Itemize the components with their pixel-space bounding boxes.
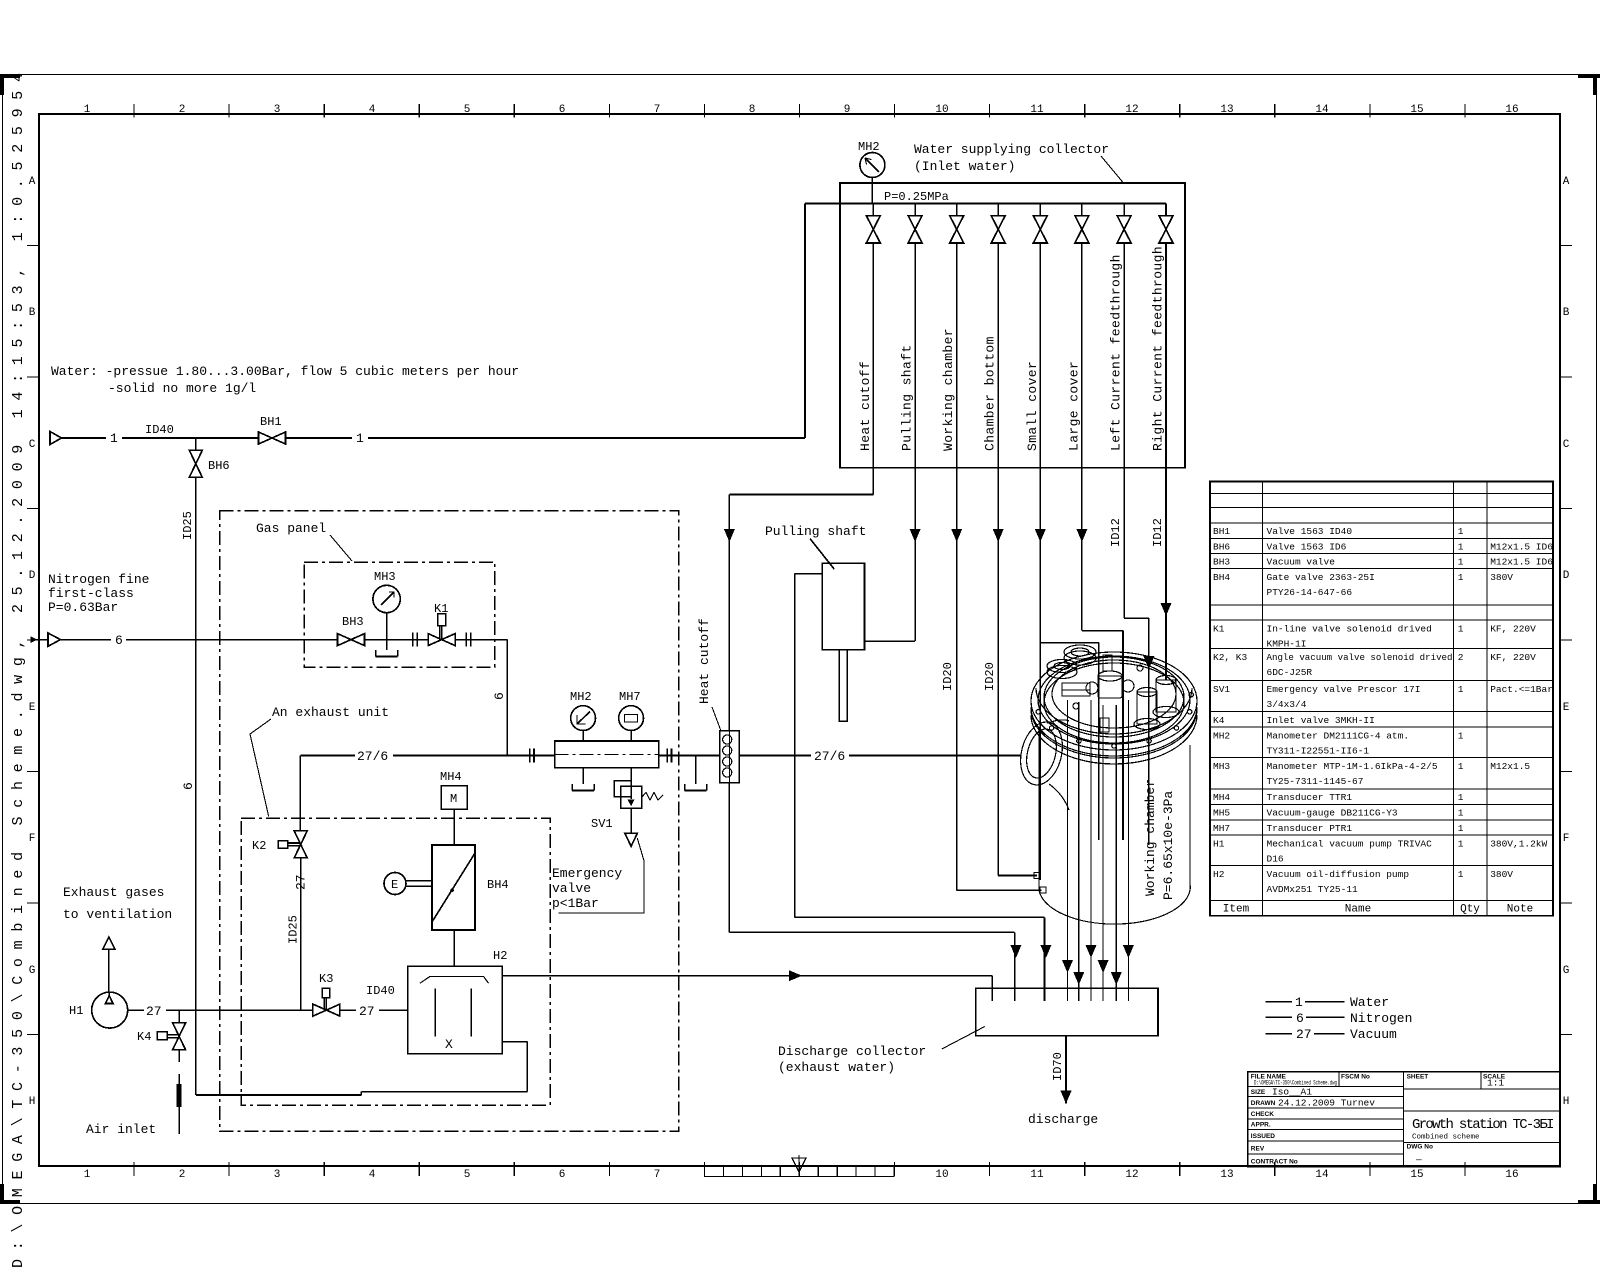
svg-text:SIZE: SIZE bbox=[1251, 1089, 1266, 1096]
svg-text:5: 5 bbox=[464, 1169, 471, 1181]
wire riser CB: down, right into chamber wall bbox=[997, 468, 999, 876]
svg-text:H: H bbox=[1563, 1096, 1570, 1108]
svg-text:BH3: BH3 bbox=[342, 615, 364, 629]
svg-text:DWG No: DWG No bbox=[1407, 1144, 1433, 1151]
top plate inner detail rects bbox=[1062, 683, 1090, 690]
wire nitrogen drop to 27/6 bbox=[506, 640, 508, 756]
legend water/nitrogen/vacuum bbox=[1266, 1002, 1345, 1034]
collector circuit labels bbox=[858, 246, 1166, 451]
svg-text:4: 4 bbox=[369, 104, 376, 116]
wire ID25 branch vertical bbox=[195, 438, 197, 450]
svg-text:Water: Water bbox=[1350, 995, 1389, 1010]
wire + flange bbox=[387, 639, 415, 641]
svg-text:AVDMx251 TY25-11: AVDMx251 TY25-11 bbox=[1267, 884, 1359, 895]
svg-text:1: 1 bbox=[84, 104, 91, 116]
svg-text:Gate valve 2363-25I: Gate valve 2363-25I bbox=[1267, 572, 1375, 583]
svg-text:10: 10 bbox=[935, 1169, 948, 1181]
svg-text:TY25-7311-1145-67: TY25-7311-1145-67 bbox=[1267, 776, 1364, 787]
svg-text:APPR.: APPR. bbox=[1251, 1122, 1271, 1129]
svg-text:Pulling shaft: Pulling shaft bbox=[900, 344, 915, 451]
svg-text:1: 1 bbox=[1458, 823, 1464, 834]
svg-text:MH7: MH7 bbox=[1213, 823, 1230, 834]
top boss left2 bbox=[1047, 666, 1077, 679]
svg-text:K2, K3: K2, K3 bbox=[1213, 652, 1248, 663]
svg-text:Exhaust gases: Exhaust gases bbox=[63, 885, 164, 900]
svg-text:M12x1.5: M12x1.5 bbox=[1490, 761, 1530, 772]
svg-text:Vacuum: Vacuum bbox=[1350, 1027, 1397, 1042]
svg-text:MH7: MH7 bbox=[619, 690, 641, 704]
transducer MH4 motor box bbox=[441, 786, 467, 810]
svg-text:11: 11 bbox=[1030, 1169, 1044, 1181]
svg-text:Large cover: Large cover bbox=[1066, 361, 1081, 451]
svg-text:ID25: ID25 bbox=[287, 915, 301, 944]
svg-text:ID40: ID40 bbox=[366, 984, 395, 998]
svg-text:BH3: BH3 bbox=[1213, 557, 1230, 568]
svg-text:Heat cutoff: Heat cutoff bbox=[858, 361, 873, 451]
svg-text:1: 1 bbox=[1458, 792, 1464, 803]
manometer MH3 bbox=[373, 585, 400, 612]
wire riser LC: down, jog right into chamber bbox=[1081, 468, 1083, 631]
svg-text:FSCM No: FSCM No bbox=[1341, 1074, 1370, 1081]
svg-text:Valve 1563 ID40: Valve 1563 ID40 bbox=[1267, 526, 1353, 537]
svg-text:Transducer TTR1: Transducer TTR1 bbox=[1267, 792, 1353, 803]
wire collector header bbox=[840, 203, 1166, 205]
svg-text:Nitrogen: Nitrogen bbox=[1350, 1011, 1412, 1026]
svg-text:5: 5 bbox=[464, 104, 471, 116]
svg-text:3: 3 bbox=[274, 1169, 281, 1181]
wire water main left bbox=[62, 437, 107, 439]
svg-text:6: 6 bbox=[559, 1169, 566, 1181]
valve K2 bbox=[294, 831, 307, 858]
svg-text:1: 1 bbox=[1458, 869, 1464, 880]
flange bolt dots bbox=[1036, 710, 1040, 714]
svg-text:MH4: MH4 bbox=[440, 770, 462, 784]
title block bbox=[1248, 1072, 1561, 1167]
chamber internals pass lines bbox=[1067, 700, 1069, 1001]
svg-text:11: 11 bbox=[1030, 104, 1044, 116]
svg-text:H1: H1 bbox=[69, 1004, 83, 1018]
wire H2 outlet to discharge bbox=[502, 975, 992, 977]
svg-text:27: 27 bbox=[294, 874, 309, 890]
valve K3 solenoid bbox=[313, 1004, 340, 1016]
svg-text:BH6: BH6 bbox=[1213, 541, 1230, 552]
svg-text:27/6: 27/6 bbox=[357, 749, 388, 764]
svg-text:380V: 380V bbox=[1490, 572, 1513, 583]
svg-text:Manometer MTP-1M-1.6IkPa-4-2/5: Manometer MTP-1M-1.6IkPa-4-2/5 bbox=[1267, 761, 1438, 772]
wire BH4 to H2 bbox=[453, 930, 455, 966]
collector valve SC bbox=[1039, 204, 1041, 216]
valve BH1 bbox=[259, 432, 286, 444]
svg-text:Angle vacuum valve solenoid dr: Angle vacuum valve solenoid drived bbox=[1267, 652, 1453, 663]
svg-text:Vacuum-gauge DB211CG-Y3: Vacuum-gauge DB211CG-Y3 bbox=[1267, 808, 1398, 819]
collector valve CB bbox=[997, 204, 999, 216]
svg-text:13: 13 bbox=[1220, 1169, 1233, 1181]
svg-text:Nitrogen fine: Nitrogen fine bbox=[48, 572, 149, 587]
svg-text:B: B bbox=[1563, 307, 1570, 319]
svg-text:MH2: MH2 bbox=[570, 690, 592, 704]
svg-text:8: 8 bbox=[749, 104, 756, 116]
wire drop to drain right of boundary bbox=[695, 756, 697, 785]
collector valve WC bbox=[956, 204, 958, 216]
svg-text:Mechanical vacuum pump TRIVAC: Mechanical vacuum pump TRIVAC bbox=[1267, 838, 1433, 849]
svg-text:1: 1 bbox=[1458, 623, 1464, 634]
wire after BH3 bbox=[365, 639, 387, 641]
svg-text:KF, 220V: KF, 220V bbox=[1490, 623, 1536, 634]
wire 27/6 after box + flange bbox=[659, 755, 670, 757]
svg-text:MH4: MH4 bbox=[1213, 792, 1230, 803]
svg-text:SV1: SV1 bbox=[1213, 684, 1230, 695]
inner drawing border bbox=[39, 114, 1560, 1166]
svg-text:A: A bbox=[1563, 176, 1570, 188]
svg-text:2: 2 bbox=[179, 1169, 186, 1181]
svg-text:Emergency: Emergency bbox=[552, 866, 622, 881]
svg-text:Note: Note bbox=[1507, 904, 1533, 916]
svg-text:9: 9 bbox=[844, 104, 851, 116]
svg-text:BH6: BH6 bbox=[208, 459, 230, 473]
svg-text:ID12: ID12 bbox=[1151, 518, 1165, 547]
svg-text:Growth station TC-3БI: Growth station TC-3БI bbox=[1412, 1117, 1553, 1133]
svg-text:BH1: BH1 bbox=[260, 415, 282, 429]
svg-text:Left Current feedthrough: Left Current feedthrough bbox=[1109, 254, 1124, 451]
svg-text:E: E bbox=[391, 878, 398, 892]
svg-text:1: 1 bbox=[1458, 572, 1464, 583]
wire 27 from H1 bbox=[128, 1009, 144, 1011]
svg-text:27/6: 27/6 bbox=[814, 749, 845, 764]
svg-text:-solid no more 1g/l: -solid no more 1g/l bbox=[108, 381, 256, 396]
wire 27/6 to chamber port bbox=[739, 755, 811, 757]
svg-text:K3: K3 bbox=[319, 972, 333, 986]
svg-text:15: 15 bbox=[1410, 1169, 1423, 1181]
svg-text:Emergency valve Prescor 17I: Emergency valve Prescor 17I bbox=[1267, 684, 1421, 695]
svg-text:M: M bbox=[450, 792, 457, 806]
svg-text:1: 1 bbox=[1458, 761, 1464, 772]
emergency valve SV1 bbox=[614, 781, 631, 797]
svg-text:ID40: ID40 bbox=[145, 423, 174, 437]
svg-text:15: 15 bbox=[1410, 104, 1423, 116]
svg-text:Gas panel: Gas panel bbox=[256, 521, 326, 536]
svg-text:6: 6 bbox=[115, 633, 123, 648]
svg-text:6: 6 bbox=[1296, 1011, 1304, 1026]
svg-text:1: 1 bbox=[1458, 731, 1464, 742]
svg-text:to ventilation: to ventilation bbox=[63, 907, 172, 922]
svg-text:12: 12 bbox=[1125, 1169, 1138, 1181]
ruler numbers bbox=[84, 104, 1519, 1181]
svg-text:K4: K4 bbox=[137, 1030, 151, 1044]
svg-text:Water supplying collector: Water supplying collector bbox=[914, 142, 1109, 157]
svg-text:discharge: discharge bbox=[1028, 1112, 1098, 1127]
svg-text:380V,1.2kW: 380V,1.2kW bbox=[1490, 838, 1547, 849]
collector valve PS bbox=[914, 204, 916, 216]
transducer MH7 bbox=[619, 706, 644, 731]
svg-text:ID70: ID70 bbox=[1051, 1052, 1065, 1081]
svg-text:valve: valve bbox=[552, 881, 591, 896]
svg-text:Item: Item bbox=[1223, 904, 1250, 916]
discharge collector box bbox=[976, 988, 1158, 1035]
vent triangle exhaust gases bbox=[103, 937, 115, 949]
svg-text:Heat cutoff: Heat cutoff bbox=[697, 618, 712, 704]
svg-text:1: 1 bbox=[1458, 541, 1464, 552]
svg-text:4: 4 bbox=[369, 1169, 376, 1181]
svg-text:BH4: BH4 bbox=[1213, 572, 1230, 583]
svg-text:Qty: Qty bbox=[1460, 904, 1480, 916]
svg-text:Valve 1563 ID6: Valve 1563 ID6 bbox=[1267, 541, 1347, 552]
manometer MH2 top bbox=[860, 153, 885, 178]
svg-text:6: 6 bbox=[492, 692, 507, 700]
svg-text:Small cover: Small cover bbox=[1025, 361, 1040, 451]
svg-text:Manometer DM2111CG-4 atm.: Manometer DM2111CG-4 atm. bbox=[1267, 731, 1410, 742]
wire SV1 vent bbox=[630, 808, 632, 833]
svg-text:F: F bbox=[29, 833, 36, 845]
svg-text:Working chamber: Working chamber bbox=[941, 328, 956, 451]
svg-text:Chamber bottom: Chamber bottom bbox=[983, 336, 998, 451]
row letters bbox=[29, 176, 1570, 1108]
svg-text:D16: D16 bbox=[1267, 853, 1284, 864]
svg-text:Combined scheme: Combined scheme bbox=[1412, 1134, 1480, 1142]
svg-text:1: 1 bbox=[1458, 838, 1464, 849]
pump H2 oil-diffusion bbox=[408, 966, 503, 1054]
svg-text:Working chamber: Working chamber bbox=[1143, 779, 1158, 896]
drain under MH3 bbox=[376, 650, 398, 657]
gate valve BH4 bbox=[432, 845, 475, 930]
wire H2 roughing return loop bbox=[526, 1042, 528, 1092]
wire riser SC: down, jog right into chamber bbox=[1039, 468, 1041, 643]
svg-text:C: C bbox=[29, 439, 36, 451]
svg-text:ID20: ID20 bbox=[941, 662, 955, 691]
svg-text:ID12: ID12 bbox=[1109, 518, 1123, 547]
svg-text:ID25: ID25 bbox=[181, 511, 195, 540]
svg-text:2: 2 bbox=[1458, 652, 1464, 663]
svg-text:13: 13 bbox=[1220, 104, 1233, 116]
valve BH6 bbox=[189, 450, 202, 477]
svg-text:F: F bbox=[1563, 833, 1570, 845]
svg-text:M12x1.5 ID6: M12x1.5 ID6 bbox=[1490, 541, 1553, 552]
svg-text:SHEET: SHEET bbox=[1407, 1074, 1429, 1081]
svg-text:ISSUED: ISSUED bbox=[1251, 1133, 1276, 1140]
svg-text:D:\OMEGA\TC-350\Combined Schem: D:\OMEGA\TC-350\Combined Scheme.dwg bbox=[1254, 1080, 1337, 1087]
svg-text:H2: H2 bbox=[493, 949, 507, 963]
measuring box MH2/MH7 bbox=[555, 741, 659, 768]
wire riser LCF ID12: down, jog right, arrow into chamber bbox=[1123, 468, 1125, 618]
collector valve LCF bbox=[1123, 204, 1125, 216]
svg-text:Right Current feedthrough: Right Current feedthrough bbox=[1151, 246, 1166, 451]
svg-text:Name: Name bbox=[1345, 904, 1371, 916]
svg-text:E: E bbox=[29, 702, 36, 714]
svg-text:Pulling shaft: Pulling shaft bbox=[765, 524, 866, 539]
svg-text:Water: -pressue 1.80...3.00Bar: Water: -pressue 1.80...3.00Bar, flow 5 c… bbox=[51, 364, 519, 379]
svg-text:H: H bbox=[29, 1096, 36, 1108]
svg-text:M12x1.5 ID6: M12x1.5 ID6 bbox=[1490, 557, 1553, 568]
svg-text:16: 16 bbox=[1505, 104, 1518, 116]
svg-text:SV1: SV1 bbox=[591, 817, 613, 831]
svg-text:TY311-I22551-II6-1: TY311-I22551-II6-1 bbox=[1267, 746, 1370, 757]
parts list table bbox=[1210, 482, 1553, 916]
svg-text:KF, 220V: KF, 220V bbox=[1490, 652, 1536, 663]
datum triangle on bottom border bbox=[792, 1155, 806, 1176]
ruler ticks left/right bbox=[27, 246, 1572, 1035]
pulling shaft box bbox=[810, 539, 865, 722]
svg-text:1: 1 bbox=[1458, 526, 1464, 537]
svg-text:D: D bbox=[1563, 570, 1570, 582]
wire water main to collector riser bbox=[286, 437, 353, 439]
wire riser WC: down, right into chamber wall bbox=[956, 468, 958, 891]
valve K1 solenoid bbox=[428, 634, 455, 646]
svg-text:1:1: 1:1 bbox=[1487, 1078, 1504, 1089]
svg-text:G: G bbox=[1563, 965, 1570, 977]
svg-text:Transducer PTR1: Transducer PTR1 bbox=[1267, 823, 1353, 834]
svg-text:(exhaust water): (exhaust water) bbox=[778, 1060, 895, 1075]
svg-text:Pact.<=1Bar: Pact.<=1Bar bbox=[1490, 684, 1553, 695]
working chamber vessel bbox=[1031, 652, 1197, 750]
svg-text:MH2: MH2 bbox=[1213, 731, 1230, 742]
svg-text:P=0.25MPa: P=0.25MPa bbox=[884, 190, 949, 204]
wire K2 down to 27 line bbox=[300, 858, 302, 1010]
pump H1 mechanical bbox=[92, 992, 128, 1028]
exhaust unit dash-dot enclosure bbox=[241, 818, 550, 1105]
svg-text:7: 7 bbox=[654, 104, 661, 116]
wire riser PS: down, left into pulling shaft; return bbox=[914, 468, 916, 641]
svg-text:B: B bbox=[29, 307, 36, 319]
svg-text:Air inlet: Air inlet bbox=[86, 1122, 156, 1137]
svg-text:Vacuum oil-diffusion pump: Vacuum oil-diffusion pump bbox=[1267, 869, 1410, 880]
svg-text:6DC-J25R: 6DC-J25R bbox=[1267, 667, 1313, 678]
wire after K1 bbox=[455, 639, 468, 641]
wire 27/6 main bbox=[300, 755, 355, 757]
wire MH2 stem to drain bbox=[582, 768, 584, 784]
svg-text:Discharge collector: Discharge collector bbox=[778, 1044, 926, 1059]
svg-text:—: — bbox=[1415, 1154, 1422, 1165]
svg-text:H1: H1 bbox=[1213, 838, 1225, 849]
riser flow arrows bbox=[724, 529, 1172, 669]
svg-text:27: 27 bbox=[1296, 1027, 1312, 1042]
svg-text:D:\OMEGA\TC-350\Combined Schem: D:\OMEGA\TC-350\Combined Scheme.dwg, 25.… bbox=[10, 64, 27, 1268]
svg-text:PTY26-14-647-66: PTY26-14-647-66 bbox=[1267, 587, 1353, 598]
nitrogen inlet arrows bbox=[31, 636, 38, 643]
collector valve RCF bbox=[1165, 204, 1167, 216]
svg-text:MH2: MH2 bbox=[858, 140, 880, 154]
svg-text:P=6.65x10e-3Pa: P=6.65x10e-3Pa bbox=[1161, 791, 1176, 900]
center fixture cluster bbox=[1098, 676, 1122, 698]
svg-text:KMPH-1I: KMPH-1I bbox=[1267, 638, 1307, 649]
svg-text:X: X bbox=[445, 1037, 453, 1052]
svg-text:In-line valve solenoid drived: In-line valve solenoid drived bbox=[1267, 623, 1432, 634]
svg-text:Vacuum valve: Vacuum valve bbox=[1267, 557, 1336, 568]
feedthrough post left bbox=[1137, 692, 1157, 724]
svg-text:16: 16 bbox=[1505, 1169, 1518, 1181]
leader emergency text bracket bbox=[559, 838, 644, 913]
valve K4 air inlet bbox=[178, 1010, 180, 1023]
svg-text:1: 1 bbox=[1458, 557, 1464, 568]
svg-text:MH5: MH5 bbox=[1213, 808, 1230, 819]
svg-text:K1: K1 bbox=[434, 602, 448, 616]
svg-text:CONTRACT No: CONTRACT No bbox=[1251, 1159, 1298, 1166]
svg-text:1: 1 bbox=[1295, 995, 1303, 1010]
svg-text:1: 1 bbox=[1458, 684, 1464, 695]
svg-text:3/4x3/4: 3/4x3/4 bbox=[1267, 699, 1307, 710]
collector valve HC bbox=[872, 204, 874, 216]
svg-text:6: 6 bbox=[181, 782, 196, 790]
svg-text:27: 27 bbox=[359, 1004, 375, 1019]
svg-text:D: D bbox=[29, 570, 36, 582]
svg-text:(Inlet water): (Inlet water) bbox=[914, 159, 1015, 174]
svg-text:E: E bbox=[1563, 702, 1570, 714]
chamber side port flange bbox=[1014, 718, 1068, 790]
svg-text:BH1: BH1 bbox=[1213, 526, 1230, 537]
svg-text:14: 14 bbox=[1315, 104, 1329, 116]
wire K2 drop from 27/6 bbox=[299, 756, 301, 832]
wire MH7 stem to SV1 bbox=[630, 768, 632, 781]
svg-text:3: 3 bbox=[274, 104, 281, 116]
air inlet restrictor bbox=[178, 1074, 180, 1134]
node water elbow up bbox=[804, 204, 806, 439]
wire nitrogen main bbox=[61, 639, 112, 641]
wire 27 to H2 bbox=[340, 1009, 356, 1011]
svg-text:K4: K4 bbox=[1213, 715, 1225, 726]
svg-text:12: 12 bbox=[1125, 104, 1138, 116]
heat cutoff coil box bbox=[720, 731, 740, 783]
svg-text:Inlet valve 3MKH-II: Inlet valve 3MKH-II bbox=[1267, 715, 1375, 726]
svg-text:10: 10 bbox=[935, 104, 948, 116]
svg-text:BH4: BH4 bbox=[487, 878, 509, 892]
svg-text:A: A bbox=[29, 176, 36, 188]
svg-text:MH3: MH3 bbox=[374, 570, 396, 584]
svg-text:6: 6 bbox=[559, 104, 566, 116]
wire riser RCF ID12: straight down into chamber bbox=[1165, 468, 1167, 680]
svg-text:7: 7 bbox=[654, 1169, 661, 1181]
svg-text:p<1Bar: p<1Bar bbox=[552, 896, 599, 911]
ruler ticks top/bottom bbox=[134, 104, 1465, 1176]
water inlet arrow bbox=[50, 432, 62, 445]
svg-text:first-class: first-class bbox=[48, 586, 134, 601]
feedthrough post right bbox=[1156, 680, 1176, 712]
svg-text:1: 1 bbox=[1458, 808, 1464, 819]
svg-text:CHECK: CHECK bbox=[1251, 1111, 1274, 1118]
svg-text:2: 2 bbox=[179, 104, 186, 116]
wire riser HC: down, left, down through coil bbox=[872, 468, 874, 495]
svg-text:DRAWN: DRAWN bbox=[1251, 1100, 1276, 1107]
folding mark boxes bottom center bbox=[705, 1166, 894, 1177]
svg-text:380V: 380V bbox=[1490, 869, 1513, 880]
collector valve LC bbox=[1081, 204, 1083, 216]
motor E bbox=[384, 873, 406, 895]
wire ID70 discharge bbox=[1065, 1036, 1067, 1104]
svg-text:REV: REV bbox=[1251, 1146, 1265, 1153]
svg-text:27: 27 bbox=[146, 1004, 162, 1019]
svg-text:Iso__A1: Iso__A1 bbox=[1272, 1087, 1312, 1098]
svg-text:H2: H2 bbox=[1213, 869, 1225, 880]
svg-text:An exhaust unit: An exhaust unit bbox=[272, 705, 389, 720]
svg-text:14: 14 bbox=[1315, 1169, 1329, 1181]
svg-text:24.12.2009 Turnev: 24.12.2009 Turnev bbox=[1278, 1098, 1375, 1109]
svg-text:P=0.63Bar: P=0.63Bar bbox=[48, 600, 118, 615]
gas panel dash-dot box bbox=[304, 562, 495, 667]
valve BH3 bbox=[338, 634, 365, 646]
svg-text:1: 1 bbox=[84, 1169, 91, 1181]
svg-text:1: 1 bbox=[110, 431, 118, 446]
svg-text:K2: K2 bbox=[252, 839, 266, 853]
station boundary dash-dot enclosure bbox=[220, 511, 679, 1132]
svg-text:MH3: MH3 bbox=[1213, 761, 1230, 772]
manometer MH2 mid bbox=[571, 706, 596, 731]
svg-text:K1: K1 bbox=[1213, 623, 1225, 634]
svg-text:C: C bbox=[1563, 439, 1570, 451]
svg-text:1: 1 bbox=[356, 431, 364, 446]
svg-text:G: G bbox=[29, 965, 36, 977]
svg-text:ID20: ID20 bbox=[983, 662, 997, 691]
top boss small left bbox=[1064, 651, 1096, 665]
water supplying collector box bbox=[840, 183, 1185, 468]
